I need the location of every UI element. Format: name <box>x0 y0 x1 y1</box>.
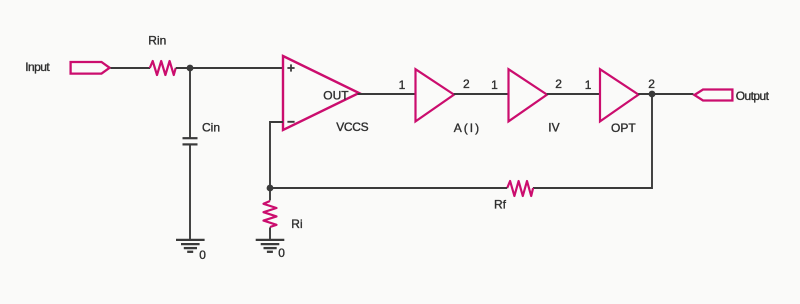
resistor Rin <box>150 61 176 75</box>
label Rin <box>148 34 166 48</box>
svg-text:2: 2 <box>555 77 562 91</box>
node junction at Rin/Cin <box>187 65 194 72</box>
pin 2 of OPT <box>648 77 655 91</box>
pin 1 of A(I) <box>399 78 406 92</box>
svg-text:Input: Input <box>25 60 50 74</box>
ground 0 under Cin <box>176 240 205 252</box>
label A(I) <box>454 121 481 135</box>
resistor Rf <box>507 181 533 196</box>
svg-text:Rin: Rin <box>148 34 166 48</box>
op-amp U VCCS <box>283 56 359 130</box>
svg-text:Ri: Ri <box>291 217 302 231</box>
wire feedback: output node down and left to Rf <box>533 94 652 188</box>
port Output <box>694 90 732 101</box>
label Output <box>736 89 770 103</box>
wire feedback left segment to node <box>270 187 507 189</box>
label Cin <box>202 120 220 134</box>
buffer A(I) <box>416 69 455 121</box>
svg-text:IV: IV <box>548 121 559 135</box>
wire I/V to OPT <box>547 93 601 95</box>
label VCCS <box>336 120 368 134</box>
svg-text:A(I): A(I) <box>454 121 481 135</box>
svg-text:1: 1 <box>491 78 498 92</box>
label 0 (Cin ground) <box>199 248 206 262</box>
pin 1 of I/V <box>491 78 498 92</box>
svg-text:1: 1 <box>585 78 592 92</box>
node junction at output <box>649 91 656 98</box>
pin 1 of OPT <box>585 78 592 92</box>
wire A(I) to I/V <box>454 93 509 95</box>
label OUT (op-amp output pin) <box>323 89 349 103</box>
label I/V <box>548 121 559 135</box>
wire node to Cin top plate <box>189 68 191 138</box>
ground 0 under Ri <box>256 240 285 252</box>
label OPT <box>611 121 636 135</box>
port Input <box>71 62 110 74</box>
wire OPT to output port <box>638 93 693 95</box>
svg-text:2: 2 <box>463 77 470 91</box>
label Ri <box>291 217 302 231</box>
resistor Ri <box>264 201 277 227</box>
wire node to Ri <box>269 188 271 201</box>
buffer I/V <box>509 69 548 121</box>
label 0 (Ri ground) <box>278 246 285 260</box>
op-amp plus pin mark <box>287 64 294 71</box>
wire input port to Rin <box>111 67 151 69</box>
svg-text:2: 2 <box>648 77 655 91</box>
wire Rin to op-amp plus input <box>176 67 283 69</box>
svg-text:0: 0 <box>278 246 285 260</box>
svg-text:OUT: OUT <box>323 89 349 103</box>
pin 2 of A(I) <box>463 77 470 91</box>
label Rf <box>494 198 507 212</box>
label Input <box>25 60 50 74</box>
svg-text:1: 1 <box>399 78 406 92</box>
svg-text:OPT: OPT <box>611 121 636 135</box>
wire op-amp output to buffer A(I) <box>358 93 417 95</box>
svg-text:Rf: Rf <box>494 198 507 212</box>
svg-text:Output: Output <box>736 89 770 103</box>
capacitor Cin <box>183 138 198 144</box>
wire Ri to ground <box>269 227 271 239</box>
svg-text:0: 0 <box>199 248 206 262</box>
op-amp minus pin mark <box>287 121 294 123</box>
pin 2 of I/V <box>555 77 562 91</box>
node junction feedback/Ri <box>267 185 274 192</box>
svg-text:VCCS: VCCS <box>336 120 368 134</box>
wire Cin bottom plate to ground <box>189 144 191 239</box>
wire minus input stub down to feedback node <box>270 122 283 188</box>
svg-text:Cin: Cin <box>202 120 220 134</box>
buffer OPT <box>600 69 639 121</box>
